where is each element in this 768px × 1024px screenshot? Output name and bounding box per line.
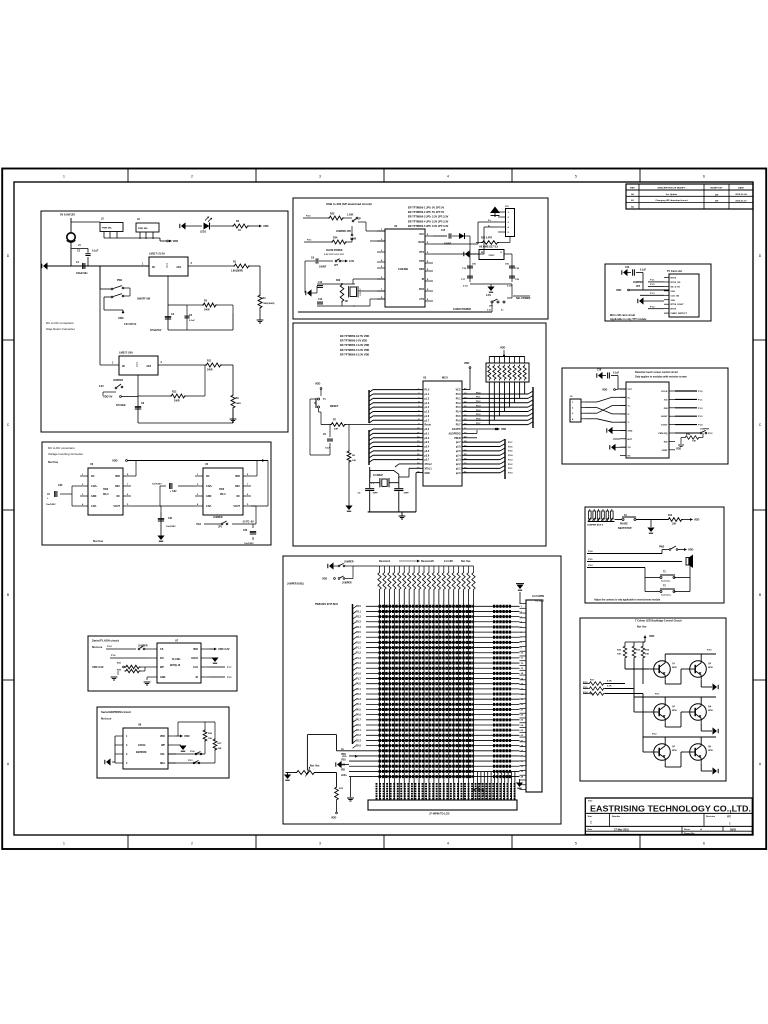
MCU left bus wires p3.x xyxy=(373,428,423,430)
ground right of HOLD pin xyxy=(209,657,213,659)
transistor Q5 xyxy=(654,744,671,761)
ground marker top jumper xyxy=(329,562,334,569)
svg-text:VDD 5V: VDD 5V xyxy=(103,395,113,399)
svg-text:VCC: VCC xyxy=(456,390,461,392)
wire R12 row xyxy=(138,395,170,397)
svg-text:Changing ISP download circuit: Changing ISP download circuit xyxy=(655,199,687,202)
svg-text:p2.1: p2.1 xyxy=(456,468,461,470)
CH340B left pin stubs xyxy=(377,230,385,232)
wire U2 OUT down through C8 xyxy=(137,375,139,423)
svg-text:CH340B: CH340B xyxy=(398,267,408,271)
svg-text:30PF: 30PF xyxy=(373,493,379,495)
svg-text:RTS: RTS xyxy=(419,252,424,254)
svg-text:10K: 10K xyxy=(645,654,649,656)
MCU right P0 wires to bus xyxy=(462,393,528,395)
svg-text:Serial FLASH circuit: Serial FLASH circuit xyxy=(92,639,119,643)
wire PSEN short xyxy=(462,437,477,439)
transistor Q6 xyxy=(690,744,707,761)
svg-text:p3.4: p3.4 xyxy=(425,446,430,449)
svg-text:ER-TFTM050-3 5V VDD: ER-TFTM050-3 5V VDD xyxy=(340,340,367,343)
svg-text:P1.0: P1.0 xyxy=(650,284,655,286)
wire P-row3 to T2 T3 xyxy=(587,567,645,569)
wire usb pins to CH340 UD+ UD- xyxy=(478,221,498,223)
svg-text:100uF/16v: 100uF/16v xyxy=(76,272,88,275)
svg-text:SDA: SDA xyxy=(160,762,165,765)
wire input rail to LM317 U1 IN xyxy=(44,265,149,267)
wire VCC to C15 xyxy=(433,235,447,237)
wire P-row2 buzzer xyxy=(587,561,682,563)
svg-text:JUMPER JP6: JUMPER JP6 xyxy=(336,230,352,233)
wire JP to CH340 pin xyxy=(358,221,366,223)
svg-text:NPN: NPN xyxy=(672,667,677,669)
wire CLK right xyxy=(209,666,225,668)
svg-text:p3.6: p3.6 xyxy=(425,455,430,457)
svg-text:VDD: VDD xyxy=(688,549,693,552)
wire jumper to VDD 5V node xyxy=(103,391,116,393)
svg-text:-10 TO -5V: -10 TO -5V xyxy=(242,521,254,524)
jumper top first xyxy=(338,565,340,567)
wire U4 VDD pin to rail xyxy=(251,475,257,477)
MCU right P0 bus vertical xyxy=(532,387,534,428)
svg-text:Adjust the contrast is only ap: Adjust the contrast is only applicable t… xyxy=(594,599,661,602)
resistor R33 10K vertical xyxy=(632,645,636,659)
connector J3 xyxy=(136,223,159,232)
wire C8 bottom rail xyxy=(138,422,233,424)
wire Vo loop to pot xyxy=(337,750,350,752)
svg-text:OSC: OSC xyxy=(115,485,120,488)
svg-text:NC: NC xyxy=(117,495,121,498)
RN1 wires down to P0 rows xyxy=(488,382,490,425)
matrix left bus vertical line xyxy=(352,604,354,744)
svg-text:0.1uF: 0.1uF xyxy=(613,373,620,375)
wire Q1 collector to P2.0 rail xyxy=(664,654,666,659)
svg-text:ADJ: ADJ xyxy=(176,266,181,269)
transistor Q2 xyxy=(690,661,707,678)
wire R24 to CH340 xyxy=(370,240,385,242)
svg-text:VCC: VCC xyxy=(628,389,633,391)
svg-text:VDD: VDD xyxy=(616,289,621,292)
svg-text:P0.2: P0.2 xyxy=(476,401,481,403)
transistor Q4 xyxy=(690,704,707,721)
svg-text:p2.2: p2.2 xyxy=(456,464,461,466)
svg-text:10uF/25V: 10uF/25V xyxy=(244,543,254,545)
resistor R13 vertical xyxy=(335,786,339,801)
svg-text:10U: 10U xyxy=(472,264,476,266)
ground below U6 caps xyxy=(487,287,494,292)
svg-text:ER-TFTM050-1 JP5: 5V JP7:5V: ER-TFTM050-1 JP5: 5V JP7:5V xyxy=(408,207,444,210)
wire jumpers to resistor rail xyxy=(353,565,380,567)
svg-text:100NF: 100NF xyxy=(319,266,327,269)
svg-text:CAP-: CAP- xyxy=(206,505,212,508)
wire P-row1 to PW2 xyxy=(587,553,662,555)
svg-text:30PF: 30PF xyxy=(404,493,410,495)
regulator U2 LM317 box xyxy=(119,356,158,375)
wire crystal network top xyxy=(317,283,355,285)
svg-text:3: 3 xyxy=(319,175,321,179)
svg-text:P1.6: P1.6 xyxy=(356,673,361,675)
svg-text:BUT: BUT xyxy=(628,439,633,441)
svg-text:P3.4: P3.4 xyxy=(356,626,361,629)
svg-text:VDD: VDD xyxy=(676,448,681,451)
svg-text:VDD: VDD xyxy=(322,578,327,581)
capacitor C20 0.1uF xyxy=(509,275,515,277)
svg-text:470uF/16V: 470uF/16V xyxy=(150,329,162,332)
wire C31 to ground xyxy=(160,530,162,536)
svg-text:GND: GND xyxy=(91,495,97,498)
capacitor C5 30PF xyxy=(394,488,403,490)
svg-text:Applicable to only TFT module: Applicable to only TFT module xyxy=(610,318,647,321)
svg-text:Not Use: Not Use xyxy=(93,539,104,543)
svg-text:NC: NC xyxy=(206,475,210,478)
svg-text:DC to DC converters: DC to DC converters xyxy=(46,321,74,325)
touch connector J6 xyxy=(570,399,581,422)
wire Q1 emitter to Q2 base xyxy=(664,680,666,685)
svg-text:U6 AMS1117-3.3: U6 AMS1117-3.3 xyxy=(479,246,499,249)
svg-text:P3.1: P3.1 xyxy=(356,611,361,613)
svg-text:240R: 240R xyxy=(204,309,210,312)
ground marker crystal rail xyxy=(307,289,312,296)
wire left vertical to Q5 row xyxy=(599,697,601,760)
svg-text:JUMPER: JUMPER xyxy=(344,562,354,564)
svg-text:P0.5: P0.5 xyxy=(356,709,361,711)
svg-text:P0.3: P0.3 xyxy=(456,407,461,409)
svg-text:P3.1: P3.1 xyxy=(307,240,312,242)
wire crystal to CH340 XI XO xyxy=(352,279,354,284)
svg-text:EEPROM: EEPROM xyxy=(136,751,146,754)
svg-text:P1.3: P1.3 xyxy=(698,416,703,418)
svg-text:Title: Title xyxy=(588,799,593,802)
svg-text:P0.6: P0.6 xyxy=(356,715,361,717)
svg-text:p1.4: p1.4 xyxy=(425,406,430,409)
svg-text:P3.2: P3.2 xyxy=(356,617,361,619)
J4 pin stubs xyxy=(520,603,527,605)
resistor R9 240R vertical xyxy=(231,394,235,409)
button T1 RESET xyxy=(320,390,322,397)
wire U1 OUT down xyxy=(167,276,169,330)
svg-text:JUMPER BUS 6: JUMPER BUS 6 xyxy=(587,525,604,527)
wire R1 to R2 node xyxy=(250,265,260,267)
wire DI right xyxy=(209,676,225,678)
svg-text:JUMPER: JUMPER xyxy=(113,379,123,382)
wire VDD pin to vdd arrow xyxy=(209,648,214,650)
svg-text:P0.3: P0.3 xyxy=(476,405,481,407)
MCU right p2 bus vertical xyxy=(504,439,506,479)
block border USB to 232 download circuit xyxy=(293,198,548,319)
block border LED backlight circuit xyxy=(580,618,726,781)
svg-text:P0.1: P0.1 xyxy=(476,397,481,399)
svg-text:10uF/25V: 10uF/25V xyxy=(152,484,162,486)
svg-text:P3.3: P3.3 xyxy=(588,565,593,567)
svg-text:10K: 10K xyxy=(208,738,212,740)
svg-text:PW1: PW1 xyxy=(117,279,123,282)
svg-text:1: 1 xyxy=(63,175,65,179)
block border step-down converter xyxy=(41,211,288,432)
resistor array Resistor1-Resistor20 vertical xyxy=(379,566,381,571)
power jack J1 xyxy=(67,233,75,241)
svg-text:RESET: RESET xyxy=(330,405,339,408)
svg-text:P0.0: P0.0 xyxy=(476,392,481,394)
svg-text:2015-01-04: 2015-01-04 xyxy=(735,193,747,196)
wire P3.1 to R24 xyxy=(304,241,331,243)
svg-text:ER-TFTM050-3 JP5: 3.3V JP7:3.3: ER-TFTM050-3 JP5: 3.3V JP7:3.3V xyxy=(408,216,449,219)
svg-text:R22 0.47R: R22 0.47R xyxy=(481,237,492,240)
svg-text:Revision: Revision xyxy=(706,816,716,818)
svg-text:LED1: LED1 xyxy=(200,231,207,234)
regulator U1 LM317 box xyxy=(149,257,188,276)
svg-text:DC to DC converters: DC to DC converters xyxy=(48,446,75,450)
svg-text:0.1U: 0.1U xyxy=(507,286,512,288)
resistor network RN1 box xyxy=(486,363,529,382)
svg-text:p3.3: p3.3 xyxy=(425,442,430,444)
wire SCL to R26 xyxy=(168,753,205,755)
svg-text:P0.7: P0.7 xyxy=(356,720,361,722)
wire U4 VOUT to output xyxy=(251,505,268,507)
wire pot wiper bottom rail xyxy=(316,772,337,774)
regulator U6 box xyxy=(479,250,504,260)
svg-text:P1.6: P1.6 xyxy=(111,655,116,657)
svg-text:P2.7: P2.7 xyxy=(508,442,513,444)
svg-text:P2.4: P2.4 xyxy=(190,750,195,753)
wire Q3 collector rail xyxy=(664,697,666,702)
sheet outer border frame xyxy=(2,169,766,850)
block border serial EEPROM circuit xyxy=(97,707,229,778)
block border serial FLASH circuit xyxy=(88,636,237,691)
svg-text:VSS: VSS xyxy=(671,291,676,293)
crystal circuit box outline xyxy=(370,470,399,477)
svg-text:p2.3: p2.3 xyxy=(456,460,461,462)
connector J2 xyxy=(100,223,123,232)
svg-text:3.3V OR 5V: 3.3V OR 5V xyxy=(124,324,137,326)
svg-text:XTAL1: XTAL1 xyxy=(425,467,433,470)
svg-text:JP: JP xyxy=(358,219,361,221)
svg-text:EASTRISING TECHNOLOGY CO.,LTD.: EASTRISING TECHNOLOGY CO.,LTD. xyxy=(590,804,751,814)
block border keys circuit xyxy=(585,507,724,603)
svg-text:ER-TFTM050-6 3.3V VDD: ER-TFTM050-6 3.3V VDD xyxy=(340,353,369,356)
svg-text:P0.3: P0.3 xyxy=(356,699,361,701)
wire VCC to VDD xyxy=(462,389,470,391)
ground bottom right of matrix xyxy=(519,782,521,790)
wire MCU GND pin down-left xyxy=(416,472,423,474)
vdd arrow right of R6 xyxy=(259,225,262,228)
svg-text:p1.6: p1.6 xyxy=(425,416,430,418)
jumper bus 6 header xyxy=(589,511,592,519)
svg-text:VDD: VDD xyxy=(649,635,654,638)
wire Q2 emitter to ground xyxy=(700,680,702,688)
svg-text:PAUSE: PAUSE xyxy=(620,523,628,526)
wire XTAL1 to crystal right xyxy=(409,467,423,469)
svg-text:GND: GND xyxy=(206,495,212,498)
svg-text:Number: Number xyxy=(612,816,620,818)
svg-text:6: 6 xyxy=(703,175,705,179)
svg-text:OSC: OSC xyxy=(235,485,240,488)
svg-text:2.2-10K: 2.2-10K xyxy=(444,560,453,563)
wire R8 to ground rail xyxy=(348,463,350,508)
svg-text:p3.2: p3.2 xyxy=(425,438,430,440)
svg-text:P0.6: P0.6 xyxy=(476,419,481,421)
svg-text:VOUT: VOUT xyxy=(488,255,495,257)
wire top vdd rail xyxy=(128,460,269,462)
wire LED+ down to ground xyxy=(350,777,352,797)
resistor network RN1 resistors xyxy=(488,365,491,381)
svg-text:Voltage Inverting Converter: Voltage Inverting Converter xyxy=(48,452,83,456)
svg-text:GND: GND xyxy=(425,473,430,475)
frame column tick lines bottom xyxy=(127,835,129,849)
wire SDA to R27 xyxy=(168,762,215,764)
svg-text:Serial EEPROM circuit: Serial EEPROM circuit xyxy=(101,710,131,714)
svg-text:P0.4: P0.4 xyxy=(456,411,461,414)
svg-text:Reset: Reset xyxy=(425,424,431,427)
wire input top rail xyxy=(71,221,100,223)
TF wires P1.x xyxy=(648,281,664,283)
svg-text:RTX2: RTX2 xyxy=(671,278,677,280)
svg-text:C30: C30 xyxy=(58,484,63,487)
svg-text:P2.2: P2.2 xyxy=(652,734,657,736)
svg-text:X-: X- xyxy=(628,414,630,416)
svg-text:P3.0: P3.0 xyxy=(356,606,361,608)
power select wires xyxy=(511,284,513,298)
svg-text:NPN: NPN xyxy=(708,710,713,712)
wire JP1 left to VG3 xyxy=(204,523,221,525)
svg-text:For Update: For Update xyxy=(666,193,678,196)
svg-text:VDD: VDD xyxy=(342,756,347,758)
svg-text:P1.0: P1.0 xyxy=(356,642,361,644)
wire left vertical to U2 IN xyxy=(99,266,101,365)
svg-text:P3.0: P3.0 xyxy=(306,216,311,218)
svg-text:p3.0: p3.0 xyxy=(425,429,430,431)
LED LED1 xyxy=(204,223,210,230)
svg-text:DOUT: DOUT xyxy=(661,425,668,427)
svg-text:p1.1: p1.1 xyxy=(425,394,430,396)
svg-text:4: 4 xyxy=(447,175,449,179)
svg-text:SD_D_IN: SD_D_IN xyxy=(671,286,681,288)
wire U3 VOUT to C31 xyxy=(131,505,161,507)
wire PW1 to VDD out xyxy=(104,296,111,298)
capacitor C33 10uF/25V xyxy=(252,524,254,528)
svg-text:P1.2: P1.2 xyxy=(650,306,655,308)
svg-text:Step-Down Converter: Step-Down Converter xyxy=(46,327,75,331)
wire ALE short xyxy=(462,432,477,434)
svg-text:P2.6: P2.6 xyxy=(356,746,361,748)
capacitor C8 470/16uF electrolytic xyxy=(135,406,141,408)
wire Q2 collector xyxy=(700,654,702,659)
wire CH340 power rail bottom xyxy=(298,311,492,313)
wire CS with jumper xyxy=(106,648,136,650)
svg-text:SEL POWER: SEL POWER xyxy=(516,297,531,300)
wire Q6 collector xyxy=(700,737,702,742)
svg-text:J4 2.54PIN: J4 2.54PIN xyxy=(532,595,544,598)
wire VDD5V to OUT line xyxy=(122,396,139,398)
svg-text:BUSY: BUSY xyxy=(661,416,668,418)
svg-text:10uF/25V: 10uF/25V xyxy=(46,504,56,506)
svg-text:VDD 3.3V: VDD 3.3V xyxy=(218,647,230,651)
block border TF card circuit xyxy=(605,264,711,321)
svg-text:R14: R14 xyxy=(668,514,673,517)
svg-text:NEXT/STOP: NEXT/STOP xyxy=(618,527,632,530)
svg-text:P0.4: P0.4 xyxy=(476,409,481,412)
matrix horizontal rows with crossing labels xyxy=(353,606,357,609)
svg-text:NC: NC xyxy=(91,475,95,478)
svg-text:p1.7: p1.7 xyxy=(425,420,430,422)
wire C23 down to VDD rail xyxy=(642,273,644,291)
block border DC-DC voltage converters xyxy=(42,442,271,545)
svg-text:O: O xyxy=(500,252,502,254)
svg-text:P0.7: P0.7 xyxy=(476,423,481,425)
svg-text:VDD: VDD xyxy=(331,817,336,820)
ground right row3 xyxy=(713,767,718,774)
svg-text:JUMPER: JUMPER xyxy=(700,429,710,431)
IC MCU box xyxy=(423,381,462,486)
svg-text:RTX0_DOUT: RTX0_DOUT xyxy=(671,304,685,306)
svg-text:Contrast+: Contrast+ xyxy=(661,594,672,597)
svg-text:Date: Date xyxy=(588,828,594,831)
ground right row2 xyxy=(713,727,718,734)
ground below R2 xyxy=(257,319,264,321)
wire crystal bottom loop xyxy=(369,491,371,512)
svg-text:P1.5: P1.5 xyxy=(356,668,361,670)
wire Q5 collector rail xyxy=(664,737,666,742)
svg-text:DATE: DATE xyxy=(738,187,744,190)
RN1 top bus wire to VDD xyxy=(489,356,524,358)
svg-text:3.3V VCC 0.1V VCC: 3.3V VCC 0.1V VCC xyxy=(324,254,344,256)
svg-text:NPN: NPN xyxy=(708,667,713,669)
svg-text:P1.4: P1.4 xyxy=(107,645,112,648)
wire C9 down to gnd rail xyxy=(304,261,306,293)
svg-text:HOLD: HOLD xyxy=(191,657,198,660)
svg-text:Not Use: Not Use xyxy=(48,460,59,464)
ground top right of matrix xyxy=(519,592,521,604)
svg-text:P3.3: P3.3 xyxy=(356,622,361,624)
svg-text:P0.4: P0.4 xyxy=(356,703,361,706)
jumper JP after R23 xyxy=(344,217,352,219)
svg-text:6: 6 xyxy=(703,842,705,846)
svg-text:JUMPER: JUMPER xyxy=(633,281,643,284)
svg-text:OUT: OUT xyxy=(166,262,169,268)
svg-text:XTAL2: XTAL2 xyxy=(425,463,433,466)
block border LCD interface matrix xyxy=(283,556,561,824)
svg-text:0.1U: 0.1U xyxy=(463,286,468,288)
wire Q3 emitter to Q4 base xyxy=(664,723,666,728)
ground stub keys xyxy=(650,520,652,528)
matrix bottom connector wires xyxy=(477,772,479,800)
svg-text:R232: R232 xyxy=(419,242,425,244)
svg-text:DIN: DIN xyxy=(664,408,668,410)
capacitor C17 0.1uF xyxy=(467,275,473,277)
svg-text:Size: Size xyxy=(588,816,593,818)
ground below LED wire xyxy=(347,797,354,799)
capacitor C5 0.1uF xyxy=(186,305,188,330)
svg-text:P2.0: P2.0 xyxy=(356,725,361,727)
resistor R8 10K vertical xyxy=(348,425,350,451)
svg-text:P0.7: P0.7 xyxy=(456,425,461,427)
sheet inner border frame xyxy=(14,182,753,835)
wire DO xyxy=(110,657,149,659)
resistor R32 10K vertical xyxy=(623,645,627,659)
svg-text:VDD: VDD xyxy=(315,383,320,386)
resistor R29 1M vertical xyxy=(340,283,344,303)
svg-text:VDD: VDD xyxy=(112,459,118,463)
wire R34 down xyxy=(642,659,644,684)
svg-text:P1.3: P1.3 xyxy=(650,293,655,295)
wire base bus row2 xyxy=(633,690,635,712)
svg-text:P0.1: P0.1 xyxy=(356,689,361,691)
svg-text:R11: R11 xyxy=(207,360,212,363)
svg-text:CAP+: CAP+ xyxy=(206,485,213,488)
wire OUT node rail xyxy=(168,304,187,306)
svg-text:MODIFY BY: MODIFY BY xyxy=(710,188,723,190)
svg-text:LM317 U2A: LM317 U2A xyxy=(119,351,133,355)
svg-text:DI: DI xyxy=(196,676,199,679)
svg-text:JUMPER BUS(): JUMPER BUS() xyxy=(287,584,304,586)
